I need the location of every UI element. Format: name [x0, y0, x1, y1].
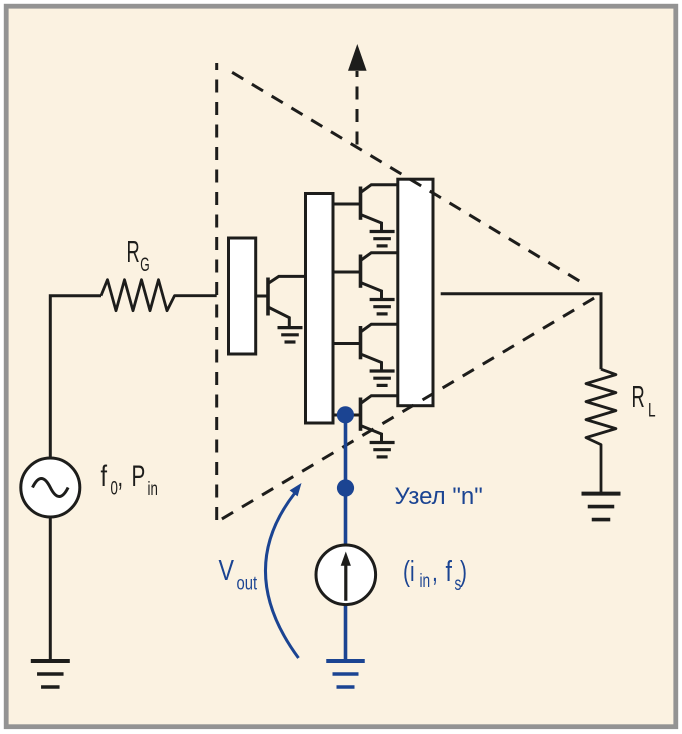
- svg-text:G: G: [140, 254, 149, 276]
- svg-text:): ): [460, 556, 467, 588]
- svg-text:f: f: [101, 459, 108, 492]
- svg-text:in: in: [148, 477, 158, 499]
- svg-text:0: 0: [111, 477, 118, 499]
- svg-text:P: P: [132, 461, 146, 493]
- svg-text:f: f: [446, 554, 453, 587]
- svg-text:R: R: [632, 380, 645, 414]
- svg-text:R: R: [127, 235, 140, 269]
- svg-text:,: ,: [118, 460, 124, 493]
- svg-text:,: ,: [432, 556, 438, 588]
- svg-text:V: V: [219, 553, 235, 586]
- svg-text:L: L: [648, 399, 656, 421]
- svg-text:out: out: [237, 573, 258, 594]
- svg-text:in: in: [420, 570, 431, 592]
- svg-text:(i: (i: [403, 556, 415, 588]
- svg-text:Узел "n": Узел "n": [395, 483, 483, 510]
